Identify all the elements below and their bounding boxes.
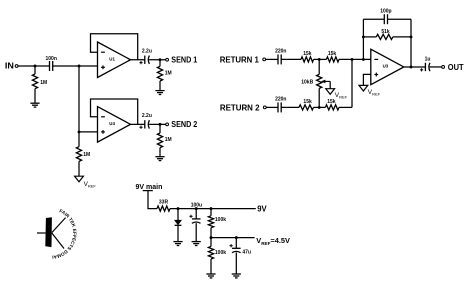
wire RETURN1 to C4 — [266, 58, 278, 60]
svg-text:51k: 51k — [381, 29, 390, 35]
wire up to summing node — [351, 59, 353, 107]
capacitor C5 220n return2 — [278, 102, 281, 112]
capacitor C3 2.2u send2 — [145, 120, 150, 128]
wire R7 to R8 — [314, 106, 326, 108]
ground below D1 — [173, 242, 182, 246]
resistor R12 100k divider bottom — [210, 238, 212, 247]
svg-text:RETURN 2: RETURN 2 — [220, 102, 260, 112]
capacitor C2 2.2u send1 — [145, 56, 150, 64]
wire U1 feedback loop — [91, 34, 138, 60]
wire feedback left leg — [362, 19, 364, 59]
svg-text:SEND 1: SEND 1 — [171, 55, 197, 65]
capacitor C9 47u Vref filter — [232, 248, 241, 252]
wire C4 to R5 — [281, 58, 301, 60]
node pot top — [318, 58, 321, 61]
wire 9V main stub — [143, 190, 153, 192]
wiper of VR1 — [324, 80, 331, 82]
svg-text:47u: 47u — [242, 250, 251, 256]
svg-text:2.2u: 2.2u — [142, 48, 152, 54]
node summing junction — [351, 58, 354, 61]
potentiometer VR1 10kB blend — [317, 74, 322, 88]
svg-text:15k: 15k — [328, 51, 337, 57]
wire to C8 — [195, 209, 197, 219]
svg-text:33R: 33R — [159, 200, 169, 206]
wire C2 to SEND1 — [149, 59, 166, 61]
wire R9 to right leg — [393, 36, 411, 38]
wire wiper to Vref — [329, 81, 331, 88]
svg-text:1M: 1M — [165, 137, 172, 143]
Vref symbol at wiper — [326, 89, 335, 95]
wire to C9 — [235, 238, 237, 249]
svg-text:U3: U3 — [383, 64, 389, 69]
svg-text:220n: 220n — [275, 97, 286, 103]
wire to R9 — [363, 36, 376, 38]
resistor R7 15k (return2 series) — [299, 105, 313, 110]
ground below R2 — [155, 91, 164, 95]
ground below R1 — [30, 103, 39, 107]
wire node to R3 — [159, 124, 161, 133]
node 51k left — [362, 35, 365, 38]
resistor R9 51k feedback — [376, 34, 393, 39]
svg-text:15k: 15k — [303, 51, 312, 57]
svg-text:U1: U1 — [109, 56, 115, 61]
svg-text:220n: 220n — [275, 49, 286, 55]
resistor R1 1M (input pulldown) — [32, 74, 37, 89]
svg-text:2.2u: 2.2u — [142, 113, 152, 119]
wire C6 to right leg — [388, 18, 412, 20]
resistor R11 100k divider top — [208, 216, 213, 228]
svg-text:100k: 100k — [215, 250, 226, 256]
node 51k right — [410, 35, 413, 38]
resistor R5 15k (return1 series) — [301, 57, 314, 62]
capacitor C7 1u output — [425, 63, 430, 71]
svg-text:100n: 100n — [45, 56, 56, 62]
wire node to R2 — [159, 60, 161, 67]
terminal SEND 1 — [166, 58, 169, 61]
node split to U4 — [78, 65, 81, 68]
svg-text:15k: 15k — [327, 99, 336, 105]
capacitor C4 220n return1 — [278, 54, 281, 64]
wire Vref rail — [211, 237, 255, 239]
wire to D1 — [177, 209, 179, 221]
svg-text:1u: 1u — [425, 57, 431, 63]
svg-text:IN: IN — [5, 61, 14, 71]
svg-text:10kB: 10kB — [301, 80, 313, 86]
svg-text:1M: 1M — [165, 71, 172, 77]
wire U4 output — [131, 123, 145, 125]
ground below R12 — [206, 274, 215, 278]
node SEND1 junction — [159, 58, 162, 61]
svg-text:1M: 1M — [83, 152, 90, 158]
node Vref — [210, 236, 213, 239]
resistor R2 1M (send1 pulldown) — [157, 66, 162, 81]
op-amp U3 — [371, 49, 404, 84]
resistor R4 1M (bias to Vref) — [76, 147, 81, 162]
node 47u tap — [235, 236, 238, 239]
wire pot top lead — [318, 59, 320, 74]
wire node to U4 noninverting input — [78, 66, 80, 132]
wire U4 feedback loop — [91, 99, 138, 124]
node at U4 input — [78, 130, 81, 133]
wire to C6 — [363, 18, 384, 20]
node pot bottom — [318, 106, 321, 109]
resistor R10 33R supply filter — [157, 206, 170, 211]
node diode tap — [177, 207, 180, 210]
resistor R3 1M (send2 pulldown) — [157, 133, 162, 148]
wire node to R1 — [34, 66, 36, 74]
wire C1 to U1 noninverting input — [53, 65, 98, 67]
wire U1 output — [131, 59, 145, 61]
node IN junction — [34, 65, 37, 68]
terminal IN — [15, 65, 18, 68]
resistor R8 15k (return2 to summing) — [325, 105, 339, 110]
node 100u tap — [195, 207, 198, 210]
resistor R6 15k (to summing node) — [326, 57, 339, 62]
terminal RETURN 2 — [263, 106, 266, 109]
node feedback tap — [362, 58, 365, 61]
Vref symbol at U3 + input — [359, 85, 368, 91]
ground below R3 — [155, 157, 164, 161]
capacitor C6 100p feedback — [384, 14, 387, 24]
wire IN to C1 — [18, 65, 49, 67]
wire to R4 — [78, 132, 80, 147]
ground below C8 — [192, 242, 201, 246]
node divider tap — [210, 207, 213, 210]
capacitor C8 100u supply filter — [192, 219, 201, 223]
Vref symbol below R4 — [75, 176, 84, 182]
svg-text:9V: 9V — [257, 204, 267, 214]
svg-text:OUT: OUT — [448, 62, 465, 72]
terminal OUT — [442, 66, 445, 69]
svg-text:U4: U4 — [109, 121, 115, 126]
wire to R11 — [210, 209, 212, 216]
wire feedback right leg — [410, 19, 412, 67]
svg-text:SEND 2: SEND 2 — [171, 119, 197, 129]
node U3 output junction — [410, 66, 413, 69]
wire R5 to R6 — [314, 58, 327, 60]
node SEND2 junction — [159, 123, 162, 126]
wire C3 to SEND2 — [149, 123, 166, 125]
wire R6 to U3 inverting input — [339, 58, 371, 60]
svg-text:100p: 100p — [380, 8, 391, 14]
terminal SEND 2 — [166, 123, 169, 126]
svg-text:1M: 1M — [40, 80, 47, 86]
svg-text:15k: 15k — [303, 99, 312, 105]
capacitor C1 100n input — [50, 61, 53, 71]
wire RETURN2 to C5 — [266, 106, 278, 108]
diode D1 polarity protection — [175, 220, 182, 225]
terminal RETURN 1 — [263, 58, 266, 61]
wire U3 + input to Vref — [363, 74, 370, 85]
wire C5 to R7 — [281, 106, 299, 108]
op-amp U4 — [98, 107, 131, 143]
wire U3 output to C7 — [404, 66, 426, 68]
op-amp U1 — [98, 42, 131, 78]
wire 9V main down — [148, 191, 157, 209]
svg-text:RETURN 1: RETURN 1 — [220, 54, 259, 64]
svg-text:9V main: 9V main — [136, 184, 163, 191]
svg-text:100u: 100u — [191, 202, 202, 208]
ground below C9 — [232, 274, 241, 278]
wire C7 to OUT — [430, 66, 442, 68]
svg-text:100k: 100k — [215, 217, 226, 223]
wire to U4 + input — [79, 131, 98, 133]
wire R8 right — [339, 106, 352, 108]
wire 9V rail — [170, 208, 256, 210]
logo mark (fan emblem with arc text) — [0, 0, 77, 260]
